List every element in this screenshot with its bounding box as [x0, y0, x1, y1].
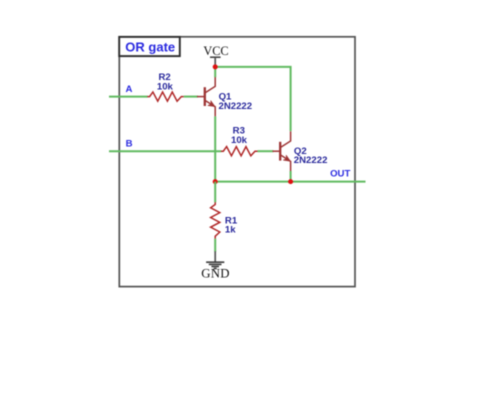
wire R3 to Q2 base	[258, 150, 274, 152]
svg-text:2N2222: 2N2222	[294, 155, 328, 166]
svg-text:1k: 1k	[225, 225, 236, 236]
wire A input	[109, 96, 148, 98]
svg-text:2N2222: 2N2222	[219, 101, 253, 112]
node VCC	[203, 44, 228, 67]
wire VCC junction down to Q1 collector	[214, 67, 216, 77]
svg-text:VCC: VCC	[203, 44, 228, 58]
wire Q1 emitter down to OUT rail	[214, 116, 216, 181]
svg-text:10k: 10k	[231, 135, 248, 146]
svg-text:A: A	[126, 84, 133, 95]
transistor Q1	[197, 77, 252, 117]
svg-text:GND: GND	[201, 267, 230, 281]
resistor R1	[211, 202, 220, 238]
junction dot VCC	[213, 64, 218, 69]
svg-text:OUT: OUT	[330, 169, 350, 180]
svg-text:OR gate: OR gate	[125, 39, 175, 54]
junction emitters left	[213, 179, 218, 184]
wire OUT rail	[215, 181, 365, 183]
wire OUT rail down to R1	[214, 182, 216, 203]
svg-text:B: B	[126, 138, 133, 149]
wire R1 to ground	[214, 239, 216, 252]
wire B input	[109, 150, 221, 152]
junction emitters right	[288, 179, 293, 184]
svg-text:10k: 10k	[157, 81, 174, 92]
transistor Q2	[273, 131, 328, 171]
ground	[201, 251, 230, 280]
wire VCC rail right and down to Q2 collector	[215, 67, 290, 131]
resistor R2	[147, 92, 183, 101]
title box "OR gate"	[119, 37, 180, 56]
resistor R3	[221, 147, 258, 156]
schematic border frame	[119, 37, 355, 287]
wire R2 to Q1 base	[184, 96, 198, 98]
wire Q2 emitter down to OUT rail	[290, 171, 292, 182]
